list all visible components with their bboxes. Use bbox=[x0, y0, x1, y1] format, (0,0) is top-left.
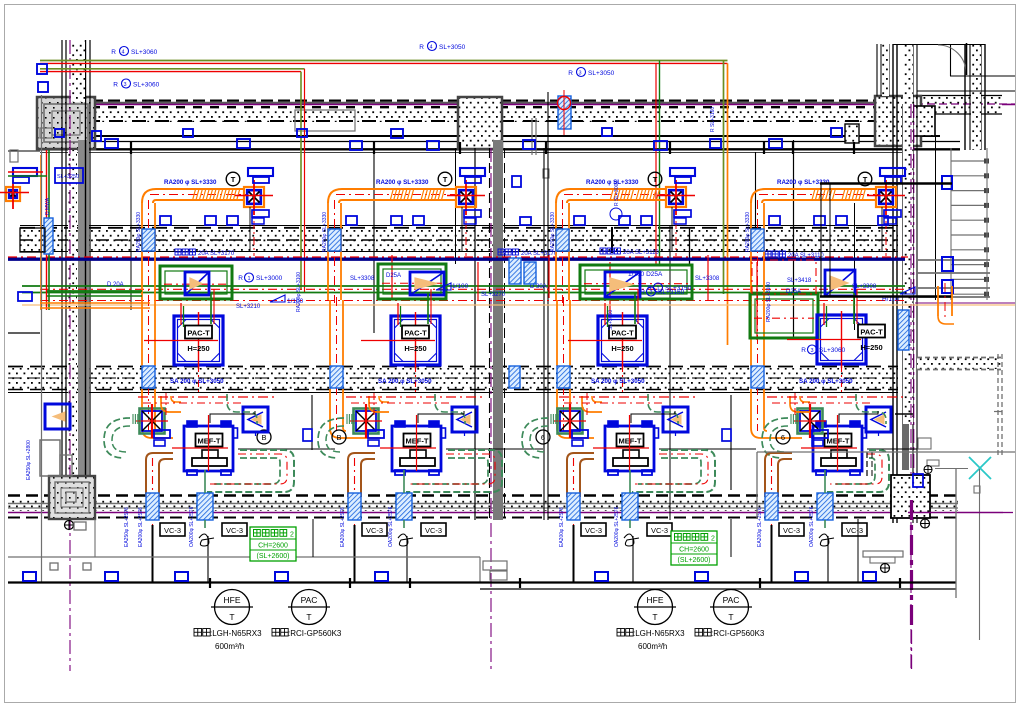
svg-text:RA200 φ SL+3330: RA200 φ SL+3330 bbox=[586, 179, 639, 186]
bay3 small blue rects under grille bbox=[674, 210, 691, 217]
bay2 riser hatch mid band bbox=[328, 229, 341, 251]
svg-text:EA200φ SL+2576: EA200φ SL+2576 bbox=[138, 507, 144, 547]
svg-text:CH=2600: CH=2600 bbox=[679, 547, 709, 554]
bay2 RA duct elbow bbox=[328, 189, 342, 203]
bay4 grille drop lines bbox=[881, 207, 883, 251]
label R4 SL+3050 mid bbox=[428, 42, 437, 51]
svg-text:EA200φ SL+2576: EA200φ SL+2576 bbox=[340, 507, 346, 547]
svg-text:600m³/h: 600m³/h bbox=[215, 642, 244, 651]
bottom small gray squares bbox=[50, 563, 58, 570]
bay3 PAC-T unit bbox=[598, 316, 647, 365]
bay4 VC-3 labels bbox=[779, 523, 804, 536]
bay4 RA riser vertical upper bbox=[750, 203, 752, 300]
bay4 OA hatch crossing bbox=[817, 493, 833, 520]
bay1 drop lines to bottom bbox=[152, 525, 154, 583]
svg-text:SL+3160: SL+3160 bbox=[608, 310, 614, 330]
left edge grille bbox=[6, 187, 20, 201]
svg-text:T: T bbox=[653, 175, 658, 184]
black beams right bbox=[820, 295, 952, 297]
bay3 PAC drop pipes bbox=[634, 293, 636, 324]
bay4 riser hatch lower band bbox=[751, 366, 764, 388]
bay2 small blue rect pair bbox=[368, 430, 384, 438]
left small blue sq mid bbox=[18, 292, 32, 301]
bay2 counter line bbox=[446, 448, 543, 450]
bay4 green curve from X grille bbox=[762, 418, 788, 458]
svg-text:RA200φ SL+3330: RA200φ SL+3330 bbox=[745, 212, 751, 252]
bay4 return grille bbox=[876, 187, 896, 207]
svg-text:PAC-T: PAC-T bbox=[611, 329, 634, 338]
svg-text:B: B bbox=[261, 433, 266, 442]
bay4 riser hatch mid band bbox=[751, 229, 764, 251]
bay3 RA duct elbow bbox=[556, 189, 570, 203]
bay3 RA riser vertical lower bbox=[556, 300, 558, 366]
gray pipe pair near center wall bbox=[531, 118, 533, 155]
svg-text:MEF-T: MEF-T bbox=[406, 437, 429, 446]
left exterior face line bbox=[41, 95, 43, 583]
svg-text:SL+3160: SL+3160 bbox=[658, 289, 685, 296]
partition blue rects bbox=[303, 429, 312, 441]
bay1 RA duct elbow bbox=[142, 189, 156, 203]
svg-text:OA200φ SL+2576: OA200φ SL+2576 bbox=[809, 506, 815, 547]
bay3 supply register stack bbox=[670, 168, 695, 176]
svg-text:SA 200 φ SL+3050: SA 200 φ SL+3050 bbox=[799, 378, 853, 385]
svg-text:VC-3: VC-3 bbox=[226, 526, 243, 535]
lower wall band concrete bbox=[8, 368, 898, 389]
left riser bundle bbox=[46, 150, 48, 310]
svg-text:T: T bbox=[728, 612, 733, 622]
navy pipe main bbox=[8, 258, 905, 261]
bay1 orange elbow above MEF bbox=[161, 396, 181, 412]
bay2 OA hatch crossing bbox=[396, 493, 412, 520]
elevator shaft block bbox=[49, 476, 95, 519]
bay1 green curve from X grille bbox=[104, 418, 130, 458]
green hot water mains bbox=[22, 285, 905, 287]
svg-text:H=250: H=250 bbox=[187, 344, 209, 353]
svg-text:D 30A: D 30A bbox=[530, 284, 547, 290]
bay3 circled letter bbox=[536, 430, 550, 444]
room partition lines bbox=[130, 150, 132, 310]
svg-text:SL+3210: SL+3210 bbox=[236, 304, 261, 310]
bay1 counter line bbox=[238, 448, 335, 450]
stair upper flight lines bbox=[917, 259, 990, 261]
bay4 EA hatch crossing bbox=[765, 493, 778, 520]
bay3 riser hatch mid band bbox=[556, 229, 569, 251]
bay2 supply register stack bbox=[460, 168, 485, 176]
top refrigerant pair upper bbox=[40, 60, 728, 62]
svg-text:EA200φ SL+2576: EA200φ SL+2576 bbox=[757, 507, 763, 547]
equipment circle PAC left bbox=[292, 590, 327, 625]
svg-text:RA200φ SL+3100: RA200φ SL+3100 bbox=[766, 282, 772, 322]
left wall hatch crossing bbox=[44, 218, 53, 254]
svg-text:RA200φ SL+3330: RA200φ SL+3330 bbox=[322, 212, 328, 252]
bay2 red lines above MEF bbox=[346, 396, 486, 398]
svg-text:D25A: D25A bbox=[386, 273, 401, 279]
svg-text:6: 6 bbox=[781, 433, 785, 442]
bay4 RA duct elbow bbox=[751, 189, 765, 203]
mid wall band concrete bbox=[20, 225, 898, 227]
bay3 green curl above MEF bbox=[648, 394, 678, 424]
svg-text:D 20A: D 20A bbox=[107, 282, 124, 288]
stair outer wall bbox=[964, 44, 966, 150]
svg-text:SA 200 φ SL+3050: SA 200 φ SL+3050 bbox=[378, 378, 432, 385]
svg-text:R: R bbox=[111, 49, 116, 56]
door jamb line bbox=[950, 44, 952, 76]
svg-text:20A SL+3170: 20A SL+3170 bbox=[198, 251, 235, 257]
bay3 damper bbox=[605, 272, 640, 297]
bay3 thermostat circle T bbox=[648, 172, 662, 186]
bay2 grille fins bbox=[346, 414, 348, 424]
grid line B purple bbox=[490, 148, 492, 671]
svg-text:SL+3060: SL+3060 bbox=[819, 347, 846, 354]
center wall riser hatch lower bbox=[509, 366, 520, 388]
center wall riser hatch bbox=[509, 258, 521, 284]
svg-text::RCI-GP560K3: :RCI-GP560K3 bbox=[288, 629, 342, 638]
svg-text:T: T bbox=[229, 612, 234, 622]
bay2 grille drop lines bbox=[461, 207, 463, 251]
bay4 fcu blue squares above mid band bbox=[769, 216, 780, 225]
svg-text:T: T bbox=[231, 175, 236, 184]
bay4 green curl above MEF bbox=[856, 394, 886, 424]
bay2 brown EA duct bbox=[348, 453, 375, 466]
svg-text:EA250φ SL+2576: EA250φ SL+2576 bbox=[124, 507, 130, 547]
bay1 connection line MEF top to diffuser bbox=[210, 411, 255, 423]
bay3 green loop right bbox=[632, 450, 715, 492]
bay2 RA riser vertical lower bbox=[329, 300, 331, 366]
label R3 SL+3060 bbox=[122, 79, 131, 88]
below band room divider stubs bbox=[94, 519, 96, 557]
bay2 VC-3 labels bbox=[362, 523, 387, 536]
bottom edge thick bbox=[8, 581, 956, 583]
bay3 VC-3 labels bbox=[581, 523, 606, 536]
svg-text:PAC-T: PAC-T bbox=[187, 329, 210, 338]
column block center bbox=[458, 97, 502, 149]
svg-text:SL+3308: SL+3308 bbox=[695, 276, 720, 282]
bay4 circled letter bbox=[776, 430, 790, 444]
svg-text:VC-3: VC-3 bbox=[585, 526, 602, 535]
beam lines below upper band bbox=[40, 141, 960, 143]
svg-text:20A SL+3110: 20A SL+3110 bbox=[788, 253, 824, 259]
bay1 RA duct horizontal bbox=[156, 188, 244, 190]
equipment circle PAC right bbox=[714, 590, 749, 625]
svg-text:RA200 φ SL+3330: RA200 φ SL+3330 bbox=[376, 179, 429, 186]
mid band label 2 bbox=[498, 249, 504, 255]
bay3 green curve from X grille bbox=[522, 418, 548, 458]
left edge diffuser box partial bbox=[45, 404, 70, 429]
svg-text:PAC-T: PAC-T bbox=[404, 329, 427, 338]
bay4 drop lines to bottom bbox=[771, 525, 773, 583]
svg-text:VC-3: VC-3 bbox=[846, 526, 863, 535]
bay2 PAC drop pipes bbox=[427, 293, 429, 324]
svg-text:4: 4 bbox=[429, 45, 432, 51]
svg-text:R: R bbox=[113, 82, 118, 89]
green note box right bbox=[671, 531, 717, 565]
svg-text:RA200 φ SL+3330: RA200 φ SL+3330 bbox=[164, 179, 217, 186]
right lower hatched band bbox=[917, 358, 1001, 369]
purple horizontal bottom right bbox=[908, 512, 1003, 514]
bottom wall band bbox=[8, 494, 962, 497]
right side small marks bbox=[994, 411, 1002, 413]
grid line C purple bbox=[910, 104, 912, 669]
bay3 red lines above MEF bbox=[559, 396, 699, 398]
right wall riser hatch bbox=[898, 310, 909, 350]
riser pair right x727 bbox=[723, 61, 725, 295]
red riser verticals bbox=[391, 255, 393, 300]
mid band label 1 bbox=[175, 249, 181, 255]
bay3 exhaust grille X bbox=[558, 409, 583, 434]
bay4 damper bbox=[825, 270, 855, 296]
grid line A purple bbox=[69, 40, 71, 671]
svg-text:MEF-T: MEF-T bbox=[827, 437, 850, 446]
center wall bbox=[493, 140, 503, 520]
svg-text:2: 2 bbox=[290, 532, 294, 539]
bay1 riser hatch lower band bbox=[142, 366, 155, 388]
bay1 flex connector symbol bbox=[199, 534, 214, 546]
beam connector verticals right bbox=[820, 183, 822, 297]
bay4 orange elbow above MEF bbox=[790, 396, 810, 412]
riser pair x302 bbox=[300, 72, 302, 290]
svg-text:SL+3000: SL+3000 bbox=[256, 275, 283, 282]
red dash line y300 bbox=[40, 300, 905, 302]
bay4 grille fins bbox=[790, 414, 792, 424]
bay1 EA hatch crossing bbox=[146, 493, 159, 520]
svg-text:1/100 D25A: 1/100 D25A bbox=[628, 271, 663, 278]
bay1 RA riser vertical upper bbox=[141, 203, 143, 300]
bay2 EA hatch crossing bbox=[348, 493, 361, 520]
bay3 counter line bbox=[659, 448, 756, 450]
bay4 MEF-T unit bbox=[813, 426, 862, 471]
bay1 grille fins bbox=[132, 414, 134, 424]
purple thick vertical bottom right bbox=[910, 500, 913, 630]
bottom edge line upper bbox=[8, 556, 480, 558]
left orange branch bbox=[40, 302, 150, 304]
bay3 drop lines to bottom bbox=[573, 525, 575, 583]
svg-text::RCI-GP560K3: :RCI-GP560K3 bbox=[711, 629, 765, 638]
bottom step rects bbox=[483, 561, 507, 570]
svg-text:OA200φ SL+2576: OA200φ SL+2576 bbox=[388, 506, 394, 547]
upper wall band concrete bbox=[40, 109, 894, 122]
svg-text:SL+3050: SL+3050 bbox=[588, 70, 615, 77]
left blue valve box bbox=[55, 168, 83, 183]
bay1 green curl above MEF bbox=[227, 394, 257, 424]
survey point upper right bbox=[924, 466, 932, 474]
bay2 return grille bbox=[456, 187, 476, 207]
bay4 green loop right bbox=[827, 450, 889, 492]
bay1 MEF-T unit bbox=[184, 426, 233, 471]
svg-text:VC-3: VC-3 bbox=[164, 526, 181, 535]
stair treads bbox=[951, 160, 987, 162]
elevator inner marks bbox=[66, 492, 76, 502]
bay2 RA duct horizontal bbox=[342, 188, 456, 190]
beam wall ticks bbox=[130, 142, 132, 154]
svg-text:CH=2600: CH=2600 bbox=[258, 543, 288, 550]
svg-text:SA 200 φ SL+3050: SA 200 φ SL+3050 bbox=[170, 378, 224, 385]
bay4 PAC drop pipes bbox=[853, 293, 855, 324]
bay4 supply diffuser triangle bbox=[866, 407, 891, 432]
right wall stubs above band bbox=[876, 44, 878, 96]
left exterior wall bbox=[61, 40, 63, 519]
bay2 thermostat circle T bbox=[438, 172, 452, 186]
mid band label 3 bbox=[765, 251, 771, 257]
bay3 RA riser vertical upper bbox=[555, 203, 557, 300]
svg-text:OA200φ SL+2576: OA200φ SL+2576 bbox=[614, 506, 620, 547]
svg-text:SL+3308: SL+3308 bbox=[350, 276, 375, 282]
svg-text:R: R bbox=[801, 347, 806, 354]
bay3 brown EA duct bbox=[567, 453, 594, 466]
bay1 PAC drop pipes bbox=[210, 293, 212, 324]
svg-text:PAC: PAC bbox=[301, 595, 318, 605]
svg-text:SA 200 φ SL+3050: SA 200 φ SL+3050 bbox=[591, 378, 645, 385]
bay4 counter line bbox=[867, 448, 930, 450]
bay1 green loop right bbox=[207, 450, 294, 492]
bottom tick marks bbox=[209, 578, 211, 588]
svg-text:HFE: HFE bbox=[224, 595, 241, 605]
svg-text:3: 3 bbox=[649, 290, 652, 296]
bay2 MEF-T unit bbox=[392, 426, 441, 471]
bay3 EA hatch crossing bbox=[567, 493, 580, 520]
bay3 RA duct horizontal bbox=[570, 188, 666, 190]
upper band right segment bbox=[915, 96, 1002, 114]
bay1 small blue rects under grille bbox=[252, 210, 269, 217]
svg-text:3: 3 bbox=[810, 348, 813, 354]
svg-text::LGH-N65RX3: :LGH-N65RX3 bbox=[210, 629, 262, 638]
upper band top purple line bbox=[40, 103, 1015, 105]
svg-text:H=250: H=250 bbox=[860, 343, 882, 352]
svg-text:OA200φ SL+2576: OA200φ SL+2576 bbox=[189, 506, 195, 547]
riser pair x656 bbox=[655, 63, 657, 265]
bay4 thermostat circle T bbox=[858, 172, 872, 186]
svg-text:VC-3: VC-3 bbox=[651, 526, 668, 535]
bay1 riser hatch mid band bbox=[142, 229, 155, 251]
svg-text:R: R bbox=[238, 275, 243, 282]
bay1 small blue rect pair bbox=[154, 430, 170, 438]
mid band crossing ticks bbox=[611, 227, 613, 253]
bay1 green duct box bbox=[160, 266, 232, 299]
bay2 fcu blue squares above mid band bbox=[346, 216, 357, 225]
bay3 fcu blue squares above mid band bbox=[574, 216, 585, 225]
bay2 supply diffuser triangle bbox=[452, 407, 477, 432]
svg-text:SL+3050: SL+3050 bbox=[439, 44, 466, 51]
door arc bbox=[938, 45, 966, 73]
schedule text right bbox=[617, 629, 625, 637]
bay3 connection line MEF top to diffuser bbox=[631, 411, 675, 423]
svg-text:D MWA: D MWA bbox=[45, 197, 51, 215]
bay3 MEF-T unit bbox=[605, 426, 654, 471]
svg-text:3: 3 bbox=[123, 82, 126, 88]
svg-text:3: 3 bbox=[578, 71, 581, 77]
svg-text:SL+3250: SL+3250 bbox=[57, 174, 79, 180]
peach line long bbox=[22, 304, 1015, 306]
bay1 supply register stack bbox=[248, 168, 273, 176]
bottom blue squares bbox=[23, 572, 36, 581]
green note box left bbox=[250, 527, 296, 561]
svg-text:VC-3: VC-3 bbox=[783, 526, 800, 535]
survey point left bbox=[65, 521, 74, 530]
bay4 flex connector symbol bbox=[819, 534, 834, 546]
bay3 orange elbow above MEF bbox=[582, 396, 602, 412]
svg-text:R SL+3160: R SL+3160 bbox=[710, 107, 716, 132]
bay3 green duct box bbox=[580, 265, 692, 299]
svg-text:T: T bbox=[306, 612, 311, 622]
svg-text:4: 4 bbox=[121, 50, 124, 56]
bay1 damper bbox=[185, 272, 209, 295]
right dashed verticals bbox=[997, 354, 999, 455]
bay2 small blue rects under grille bbox=[464, 210, 481, 217]
bay4 PAC-T unit bbox=[817, 315, 866, 364]
bay1 riser elbow to MEF bbox=[142, 428, 173, 438]
bay3 riser elbow to MEF bbox=[557, 428, 594, 438]
bay3 PAC red stub to band bbox=[622, 365, 624, 395]
svg-text:EA200φ SL+2576: EA200φ SL+2576 bbox=[559, 507, 565, 547]
pilaster block bbox=[845, 124, 859, 143]
svg-text:H=250: H=250 bbox=[404, 344, 426, 353]
bay1 PAC red stub to band bbox=[198, 365, 200, 395]
bottom right wall extension bbox=[757, 451, 1015, 453]
bay2 RA riser vertical upper bbox=[327, 203, 329, 300]
cyan X mark bbox=[969, 457, 991, 479]
bay4 red dash box bbox=[752, 260, 816, 294]
svg-text:PAC: PAC bbox=[723, 595, 740, 605]
svg-text:600m³/h: 600m³/h bbox=[638, 642, 667, 651]
label R3 SL+3050 right bbox=[577, 68, 586, 77]
bay2 drop lines to bottom bbox=[354, 525, 356, 583]
svg-text::LGH-N65RX3: :LGH-N65RX3 bbox=[633, 629, 685, 638]
bay2 riser hatch lower band bbox=[330, 366, 343, 388]
svg-text:RA200φ SL+3100: RA200φ SL+3100 bbox=[296, 272, 302, 312]
column block left bbox=[37, 97, 95, 149]
bay1 grille drop lines bbox=[249, 207, 251, 251]
svg-text:SL+3060: SL+3060 bbox=[131, 49, 158, 56]
right exterior wall bbox=[892, 44, 894, 523]
bay2 flex connector symbol bbox=[398, 534, 413, 546]
bay4 RA duct horizontal bbox=[765, 188, 876, 190]
left green branch bbox=[47, 290, 142, 292]
svg-text:RA200φ SL+3330: RA200φ SL+3330 bbox=[136, 212, 142, 252]
svg-text:VC-3: VC-3 bbox=[425, 526, 442, 535]
svg-text:20A SL+3110: 20A SL+3110 bbox=[623, 250, 659, 256]
svg-text:SL+3418: SL+3418 bbox=[787, 278, 812, 284]
svg-text:R: R bbox=[419, 44, 424, 51]
svg-text:1: 1 bbox=[247, 276, 250, 282]
left short line top bbox=[8, 150, 40, 152]
stair inner wall vertical bbox=[935, 135, 937, 300]
svg-text:VC-3: VC-3 bbox=[366, 526, 383, 535]
survey point lower right bbox=[881, 564, 890, 573]
label R4 SL+3060 bbox=[120, 47, 129, 56]
bay4 supply register stack bbox=[880, 168, 905, 176]
wall opening bay2 bbox=[295, 110, 355, 131]
equipment circle HFE right bbox=[638, 590, 673, 625]
bay2 PAC-T unit bbox=[391, 316, 440, 365]
bay4 green duct box bbox=[750, 294, 818, 338]
bay3 return grille bbox=[666, 187, 686, 207]
equipment circle HFE left bbox=[215, 590, 250, 625]
bay2 green loop right bbox=[406, 450, 502, 492]
bay1 exhaust grille X bbox=[140, 409, 165, 434]
bay2 exhaust grille X bbox=[354, 409, 379, 434]
column block stair bbox=[909, 106, 935, 136]
bay3 grille drop lines bbox=[671, 207, 673, 251]
bay4 riser elbow to MEF bbox=[751, 428, 802, 438]
dashed verticals above right column bbox=[866, 452, 868, 477]
svg-text:H=250: H=250 bbox=[611, 344, 633, 353]
bay2 green curl above MEF bbox=[435, 394, 465, 424]
orange riser far right bbox=[937, 286, 939, 316]
bay3 small blue rect pair bbox=[572, 430, 588, 438]
svg-text:SL+3308: SL+3308 bbox=[852, 284, 877, 290]
bay3 riser hatch lower band bbox=[557, 366, 570, 388]
bay3 flex connector symbol bbox=[624, 534, 639, 546]
svg-text:(SL+2600): (SL+2600) bbox=[257, 553, 290, 560]
